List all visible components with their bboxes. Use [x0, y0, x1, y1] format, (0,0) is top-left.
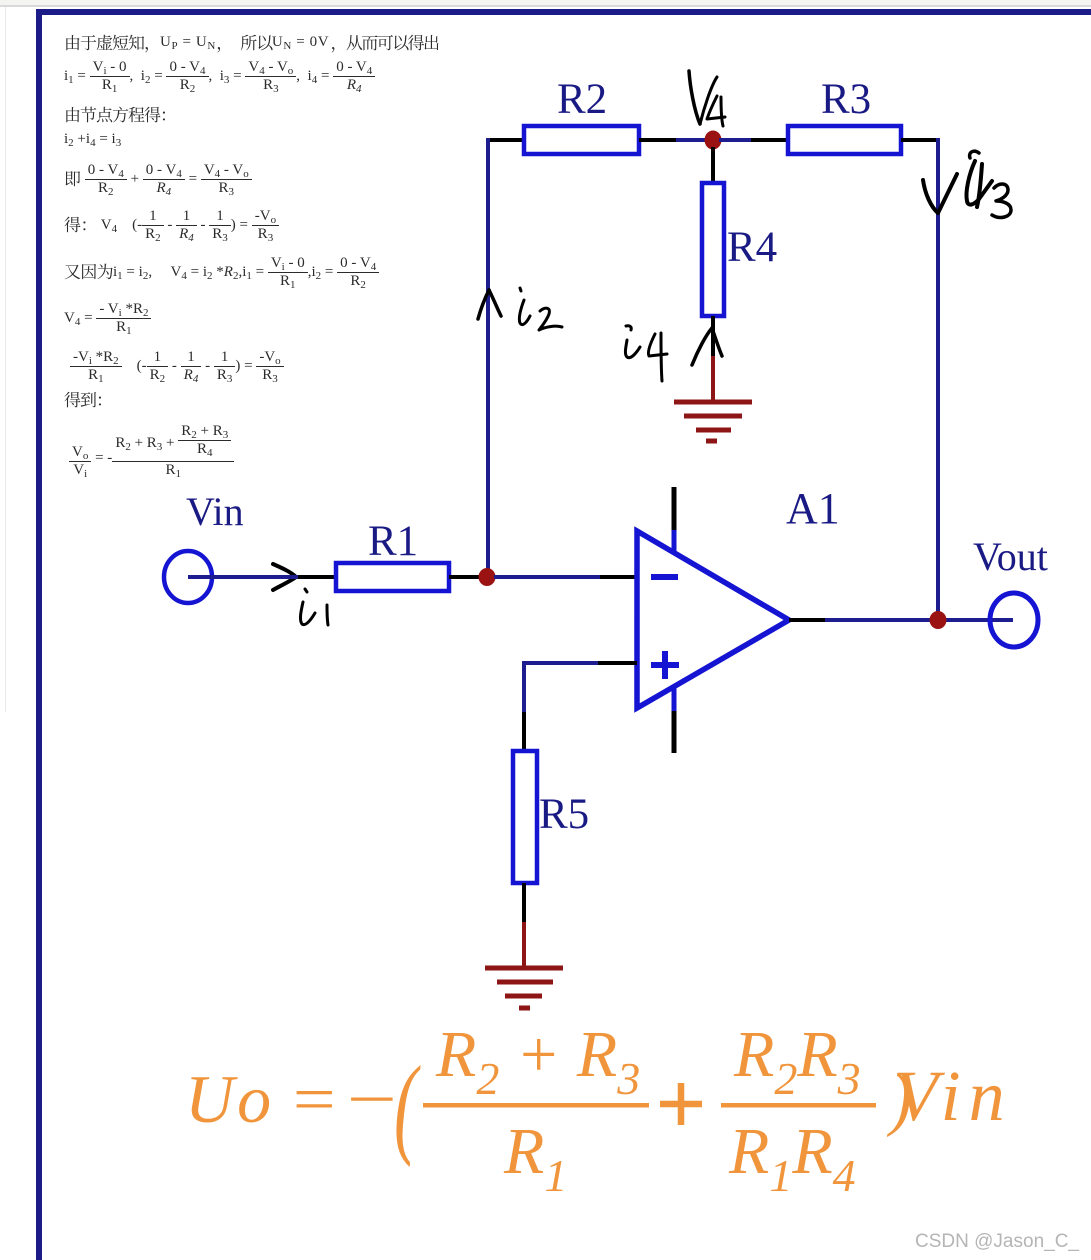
wire plus input vertical down to R5	[522, 661, 526, 751]
derivation line 7	[64, 255, 379, 290]
node inverting input junction dot	[479, 568, 496, 586]
derivation line 1	[64, 34, 437, 51]
op-amp top power pin	[672, 487, 677, 554]
resistor R2	[524, 126, 639, 154]
label R4	[727, 224, 777, 271]
wire R5 to ground (red part)	[522, 922, 526, 968]
source Vin circle	[164, 551, 212, 603]
derivation line 3	[64, 106, 176, 123]
resistor R3	[788, 126, 901, 154]
wire feedback vertical right	[936, 138, 940, 620]
wire node to op-amp minus input	[494, 575, 637, 579]
wire Vin to R1	[188, 575, 336, 579]
wire R4 to ground (black part)	[711, 316, 715, 356]
label Vout	[973, 534, 1048, 579]
label R5	[539, 791, 589, 838]
wire R2 to node V4	[639, 138, 707, 142]
wire top-left corner to R2	[486, 138, 524, 142]
wire left vertical (node to R2 rail)	[486, 138, 490, 577]
handwritten i3 with down arrow	[923, 151, 1011, 217]
label R1	[368, 518, 418, 565]
node V4 junction dot	[705, 131, 722, 150]
wire op-amp output	[789, 618, 1013, 622]
op-amp minus sign	[651, 574, 678, 580]
resistor R1	[336, 563, 449, 591]
derivation line 8	[64, 301, 151, 336]
op-amp plus sign	[651, 651, 679, 679]
derivation line 10	[64, 391, 112, 408]
op-amp A1 triangle	[637, 531, 789, 708]
derivation line 2 currents	[64, 59, 375, 94]
wire R3 to top-right corner	[901, 138, 936, 142]
node output junction dot	[930, 611, 947, 629]
wire R5 to ground (black part)	[522, 883, 526, 922]
label Vin	[186, 489, 244, 534]
ground under R5	[485, 968, 563, 1008]
terminal Vout circle	[990, 593, 1038, 647]
wire node V4 down to R4	[711, 147, 715, 183]
handwritten i4 with up arrow	[625, 326, 722, 381]
wire R1 to node	[449, 575, 481, 579]
handwritten V4	[689, 71, 725, 126]
derivation line 11	[69, 426, 234, 479]
op-amp bottom power pin	[672, 687, 677, 753]
frame top bar	[36, 9, 1091, 15]
watermark	[915, 1231, 1079, 1253]
wire plus input horizontal	[524, 661, 637, 665]
handwritten i1 with right arrow	[273, 564, 328, 625]
ground under R4	[674, 402, 752, 441]
handwritten i2 with up arrow	[478, 288, 562, 330]
derivation line 4	[64, 131, 121, 148]
resistor R4	[702, 183, 724, 316]
label R2	[557, 76, 607, 123]
label A1	[786, 484, 840, 533]
derivation line 5	[64, 162, 252, 197]
resistor R5	[513, 751, 537, 883]
derivation line 9	[70, 349, 284, 384]
window top strip	[0, 0, 1091, 5]
label R3	[821, 76, 871, 123]
frame left bar	[36, 9, 42, 1260]
wire node V4 to R3	[719, 138, 788, 142]
faint screenshot edge line	[5, 7, 6, 712]
wire R4 to ground (red part)	[711, 356, 715, 402]
derivation line 6	[64, 208, 279, 243]
